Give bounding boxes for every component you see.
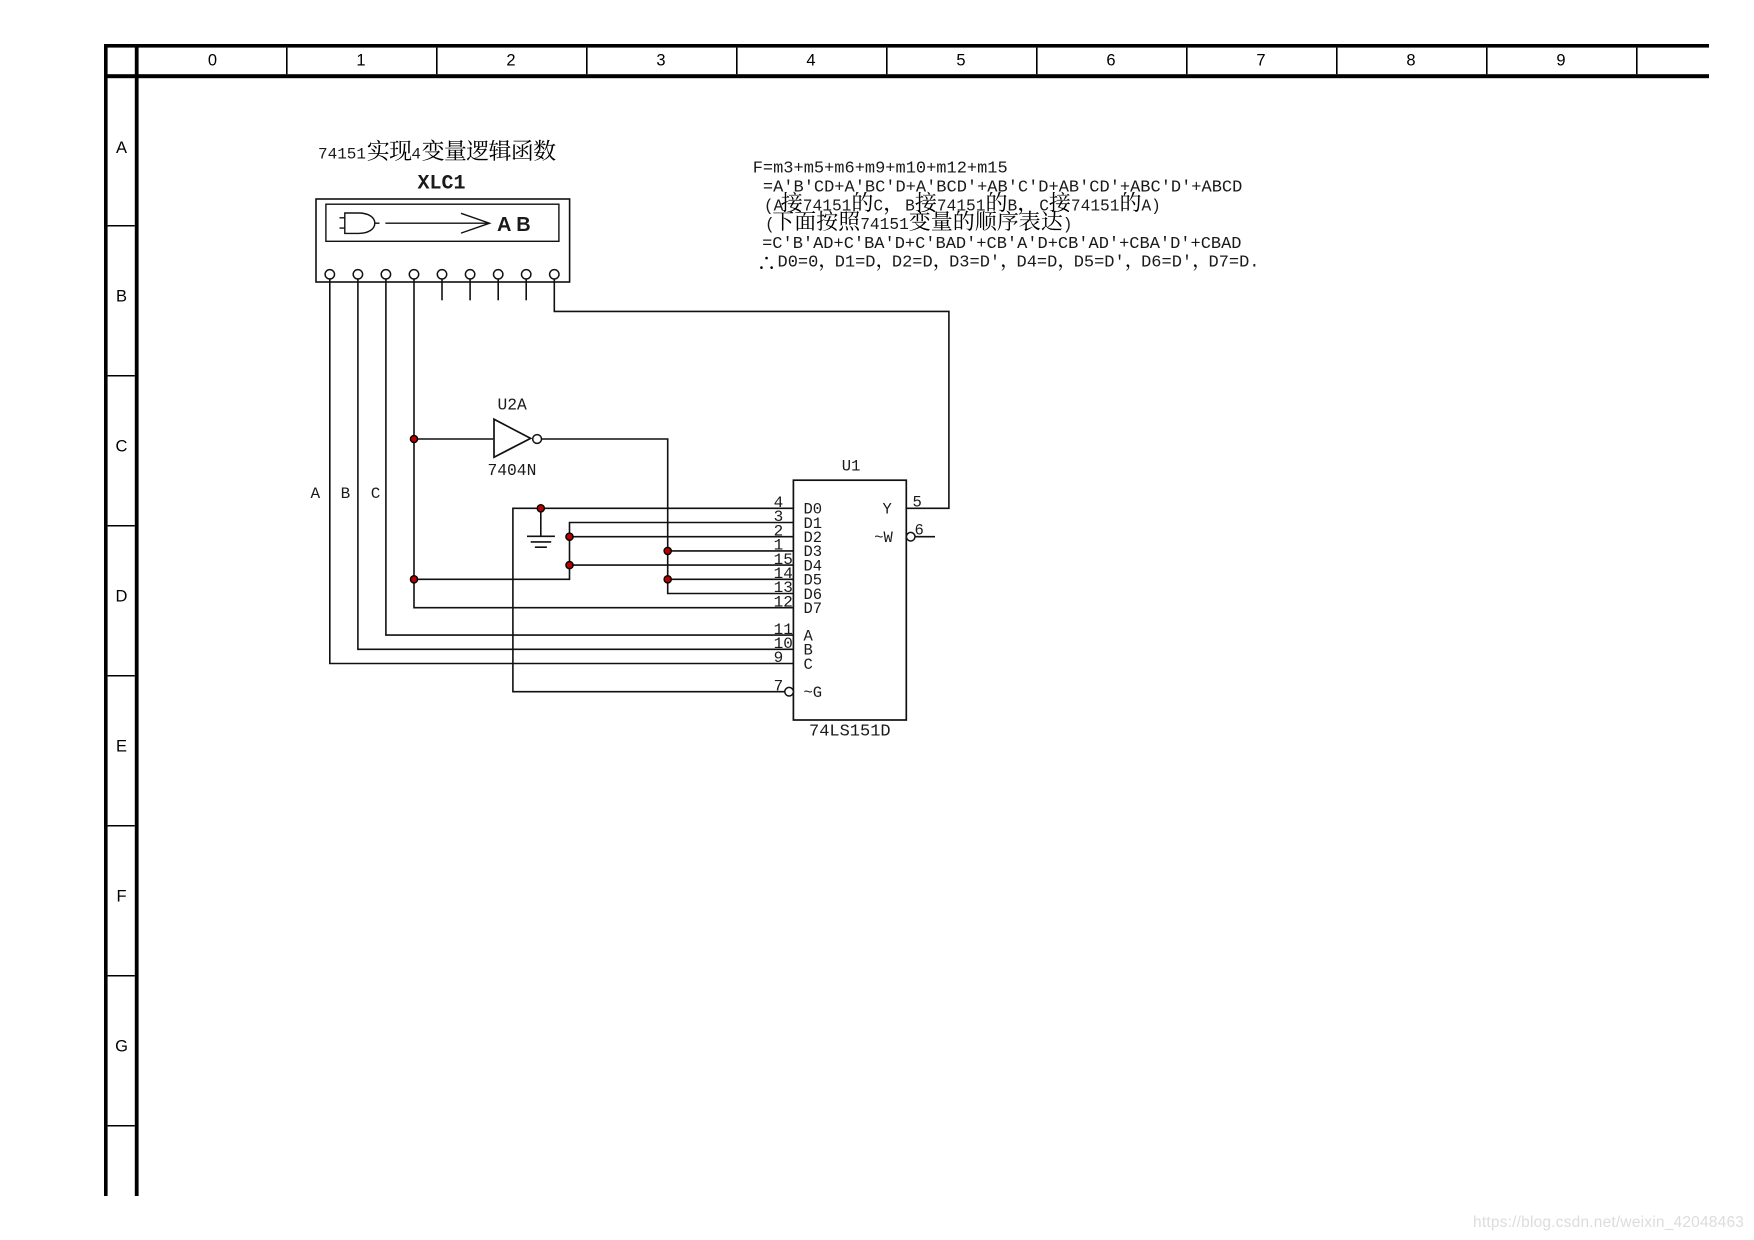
XLC1 terminal 1 <box>325 270 334 279</box>
XLC1 terminal 7 <box>494 270 503 279</box>
note F=m3+m5+m6+m9+m10+m12+m15 derivation <box>753 160 1260 273</box>
wire net D' : U2A output to U1 pin 13 D6 <box>542 439 794 594</box>
svg-text:D2=D: D2=D <box>892 254 933 273</box>
junction node (668,579) <box>664 576 671 583</box>
ground <box>527 508 555 547</box>
svg-text:A): A) <box>1142 197 1161 215</box>
wire stub ~W pin 6 <box>915 536 935 538</box>
U1 body outline <box>793 480 906 720</box>
svg-text:0: 0 <box>208 51 217 69</box>
svg-text:U1: U1 <box>842 458 861 476</box>
svg-text:6: 6 <box>915 522 924 540</box>
svg-text:D7=D.: D7=D. <box>1209 254 1260 273</box>
wire stub from XLC1 terminal 6 <box>469 279 471 301</box>
wire net D: XLC1 terminal 4 to U1 pin 12 D7 <box>414 279 793 608</box>
svg-text:): ) <box>1063 216 1073 234</box>
svg-text:D: D <box>116 588 128 606</box>
XLC1 terminal 5 <box>437 270 446 279</box>
wire stub from XLC1 terminal 5 <box>441 279 443 301</box>
svg-text:74LS151D: 74LS151D <box>809 723 891 742</box>
wire stub from XLC1 terminal 7 <box>497 279 499 301</box>
svg-text:C: C <box>873 197 883 215</box>
svg-text:B: B <box>116 288 127 306</box>
svg-text:5: 5 <box>956 51 965 69</box>
AND-gate icon inside XLC1 <box>340 218 345 228</box>
svg-text:C: C <box>116 438 128 456</box>
svg-text:(A: (A <box>764 197 784 215</box>
svg-text:D0=0: D0=0 <box>778 254 819 273</box>
svg-text:4: 4 <box>411 146 421 164</box>
svg-text:(: ( <box>765 216 775 234</box>
junction node (668,551) <box>664 547 671 554</box>
svg-text:B: B <box>341 485 351 503</box>
wire net B: XLC1 terminal 2 to U1 pin 10 B <box>358 279 794 650</box>
XLC1 terminal 2 <box>353 270 362 279</box>
svg-text:7: 7 <box>1256 51 1265 69</box>
wire net Y feedback: U1 pin 5 Y to XLC1 terminal 9 <box>554 279 949 509</box>
svg-text:G: G <box>115 1038 128 1056</box>
svg-text:U2A: U2A <box>498 396 528 415</box>
svg-text:C: C <box>804 656 813 674</box>
wire U2A input from net D <box>414 438 493 440</box>
svg-text:C: C <box>371 485 381 503</box>
svg-text:74151: 74151 <box>1071 197 1120 215</box>
svg-text:D1=D: D1=D <box>835 254 876 273</box>
svg-text:3: 3 <box>656 51 665 69</box>
wire net C: XLC1 terminal 3 to U1 pin 11 A <box>386 279 794 635</box>
svg-text:Y: Y <box>882 501 892 519</box>
svg-text:D3=D': D3=D' <box>949 254 1000 273</box>
svg-text:4: 4 <box>806 51 815 69</box>
junction node (570,565) <box>566 562 573 569</box>
svg-text:D4=D: D4=D <box>1017 254 1058 273</box>
XLC1 body outline <box>316 199 570 282</box>
schematic title 74151 4-variable logic function <box>318 140 556 164</box>
wire net D' branch to D3 <box>668 550 794 552</box>
XLC1 terminal 8 <box>522 270 531 279</box>
pin 7 bubble <box>785 687 794 696</box>
junction node (541,508) <box>537 505 544 512</box>
svg-text:A B: A B <box>497 214 531 236</box>
wire net D branch to D1 <box>414 523 793 580</box>
multiplexer U1 74LS151D <box>774 458 924 742</box>
svg-text:B: B <box>905 197 915 215</box>
svg-text:A: A <box>116 139 127 157</box>
inverter output bubble <box>533 435 542 444</box>
svg-text:D5=D': D5=D' <box>1074 254 1125 273</box>
svg-text:A: A <box>311 485 321 503</box>
junction node (414,579) <box>410 576 417 583</box>
svg-text:D7: D7 <box>804 600 823 618</box>
svg-text:9: 9 <box>774 649 784 667</box>
svg-text:=C'B'AD+C'BA'D+C'BAD'+CB'A'D+C: =C'B'AD+C'BA'D+C'BAD'+CB'A'D+CB'AD'+CBA'… <box>762 235 1241 254</box>
inverter triangle <box>494 419 531 457</box>
svg-text:~G: ~G <box>804 684 823 702</box>
svg-text:E: E <box>116 738 127 756</box>
svg-text:1: 1 <box>356 51 365 69</box>
svg-text:F=m3+m5+m6+m9+m10+m12+m15: F=m3+m5+m6+m9+m10+m12+m15 <box>753 160 1008 179</box>
svg-text:12: 12 <box>774 593 793 611</box>
XLC1 terminal 6 <box>465 270 474 279</box>
svg-text:9: 9 <box>1556 51 1565 69</box>
svg-text:~W: ~W <box>874 529 893 547</box>
svg-text:XLC1: XLC1 <box>418 173 466 196</box>
svg-text:D6=D': D6=D' <box>1141 254 1192 273</box>
pin 6 bubble <box>906 532 915 541</box>
svg-text:=A'B'CD+A'BC'D+A'BCD'+AB'C'D+A: =A'B'CD+A'BC'D+A'BCD'+AB'C'D+AB'CD'+ABC'… <box>763 179 1242 198</box>
wire stub from XLC1 terminal 8 <box>525 279 527 301</box>
XLC1 terminal 4 <box>409 270 418 279</box>
logic converter XLC1 <box>316 173 570 283</box>
XLC1 terminal 3 <box>381 270 390 279</box>
svg-text:5: 5 <box>913 493 922 511</box>
svg-text:2: 2 <box>506 51 515 69</box>
svg-text:8: 8 <box>1406 51 1415 69</box>
svg-text:https://blog.csdn.net/weixin_4: https://blog.csdn.net/weixin_42048463 <box>1473 1214 1744 1231</box>
wire net D branch to D2 <box>570 536 794 538</box>
wire net A: XLC1 terminal 1 to U1 pin 9 C <box>330 279 794 664</box>
junction node (570,537) <box>566 533 573 540</box>
svg-text:6: 6 <box>1106 51 1115 69</box>
wire net D branch to D4 <box>570 564 794 566</box>
svg-text:7404N: 7404N <box>488 461 537 480</box>
svg-text:74151: 74151 <box>318 146 366 164</box>
wire net D' branch to D5 <box>668 578 794 580</box>
conversion arrow icon <box>385 222 489 224</box>
wire ground net to ~G pin 7 and D0 pin 4 <box>513 508 794 691</box>
inverter U2A 7404N <box>488 396 542 481</box>
junction node (414,439) <box>410 435 417 442</box>
svg-text:74151: 74151 <box>860 216 909 234</box>
svg-text:7: 7 <box>774 677 784 695</box>
XLC1 terminal 9 <box>550 270 559 279</box>
svg-text:F: F <box>116 888 126 906</box>
